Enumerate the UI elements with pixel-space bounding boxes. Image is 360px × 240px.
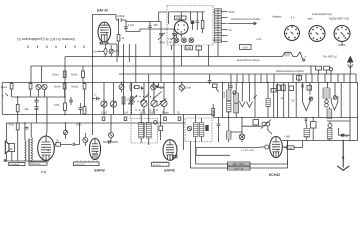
capacitor C13 [130,83,132,92]
jack J1 [36,84,41,89]
svg-text:0,5A: 0,5A [243,46,248,49]
svg-text:0,1M: 0,1M [186,47,191,50]
small box b2 [124,117,127,121]
jack J2 [42,84,47,89]
coupling circle c [328,124,332,128]
svg-text:5000Ω 1200: 5000Ω 1200 [30,164,40,166]
grid arrow Vd [331,96,338,110]
wire: T4 leads [25,123,31,161]
svg-text:10000: 10000 [149,111,156,114]
svg-text:2μF / 1μ: 2μF / 1μ [234,167,243,170]
transformer T4 core [27,139,30,162]
capacitor C3 [148,22,152,57]
svg-text:Regler: Regler [162,111,169,114]
label box 2 [196,46,202,50]
resistor R12 [130,97,133,104]
trimmer C15 [101,101,107,107]
wire: nested drops [191,142,196,169]
measure label boxes [228,162,251,166]
svg-text:0,1μF: 0,1μF [128,24,135,27]
wire: chassis bus y82.5 [2,82,358,84]
capacitor C11 [79,103,83,115]
label box V2 pins [74,162,100,166]
wire: bus y97 [12,96,65,98]
IF T7 winding a [227,90,232,101]
svg-text:470k: 470k [54,104,60,107]
svg-text:250: 250 [154,24,159,27]
small box b1 [102,117,105,121]
osc coil circles [262,122,266,126]
nested wire y147.5 [196,148,260,156]
wire: V1 frame [93,15,117,83]
trimmer C18 [151,100,157,106]
switch shaft dashed [130,104,132,119]
wire y140.5 [282,118,358,141]
IF T8 winding b [234,104,239,113]
resistor R14 [212,110,214,118]
resistor R1 [118,20,120,57]
wire: bus y117.5 [213,117,358,119]
box right of T5 [159,126,163,131]
wire: x104 x113.5 x123.5 x131.5 drops [104,83,132,115]
antenna A1 [347,56,354,63]
IF T5 winding b [146,123,151,139]
trimmer C27 [333,96,337,100]
ground arrow [342,141,344,168]
svg-text:EAF42: EAF42 [94,169,105,173]
label box DauerMagn [9,163,25,166]
trimmer inside IF box [154,121,158,125]
svg-text:4700: 4700 [159,42,165,45]
blob core [205,125,208,131]
wire: arrow lead [228,22,257,25]
coil L2 [227,131,232,139]
nested wire y164 [196,163,288,165]
svg-text:Dreh1: Dreh1 [53,74,60,77]
wire: verticals below V1 [117,44,136,66]
small box b4 [178,117,181,121]
IF T7 winding b [227,102,232,113]
svg-text:40μ: 40μ [25,108,30,111]
capacitor C20 [217,118,221,143]
svg-text:Dreh2: Dreh2 [71,74,78,77]
resistor R9 [64,83,66,104]
capacitor C31 on T4 lead [25,127,29,129]
shield box dashed 1 [167,6,213,46]
wire: top link [126,12,167,22]
blob [156,85,158,88]
box C22 [311,122,317,129]
wire: x222.5 [222,83,224,118]
coil L6 [304,129,310,138]
trimmer C25 [63,130,67,134]
IF T6 winding a [193,123,198,137]
transformer T1 winding [215,9,222,43]
wire: T5 stubs [141,115,149,146]
resistor R10 [134,86,139,89]
trimmer C4 [158,22,165,83]
capacitor C21 ticks [305,118,308,125]
IF T5 winding a [139,123,144,139]
svg-text:abgeschirmte Leitung: abgeschirmte Leitung [237,59,261,62]
svg-text:Für 4007-μ2: Für 4007-μ2 [323,55,337,58]
svg-text:1-6-5-2-4-3: 1-6-5-2-4-3 [75,164,84,166]
trimmer C16 [110,101,116,107]
wire: box drops [172,45,209,66]
small boxes below bus right [276,85,280,91]
capacitor C29 [229,74,232,90]
ticks row y46 [28,46,84,49]
svg-text:0,05μF: 0,05μF [117,15,125,18]
svg-text:Siemens SH 607 W (Qualitätssup: Siemens SH 607 W (Qualitätssuper 51 [17,37,75,41]
wire: x148.7 corner [148,74,150,119]
resistor R11 [122,97,125,104]
svg-text:2μF: 2μF [124,111,129,114]
label box 0,1M [185,46,193,50]
wire: T6 stubs [196,115,202,142]
trimmer C17 [141,100,147,106]
trimmer C26 [309,97,313,101]
tube V1 pin circles [101,42,103,44]
fuse label box [240,45,252,50]
tube V5 EL41 [38,136,55,160]
trimmer C19 [161,100,167,106]
switch SW1 bump [282,52,297,56]
svg-text:DrehC: DrehC [72,86,79,89]
small box b3 [164,117,167,121]
boxed label 1,9uF [175,16,187,20]
svg-text:4,2V: 4,2V [168,39,173,41]
bottom wire y161 [5,160,49,162]
svg-text:4700: 4700 [9,124,15,127]
diode D1 [141,87,144,90]
nested wire y168 [191,141,288,169]
socket S3 [334,26,350,42]
right boxes y66 [311,65,316,67]
coupling circles [325,100,329,104]
IF shield box dashed [131,119,158,144]
svg-text:Wellenbereichsumschalter: Wellenbereichsumschalter [231,18,260,21]
wire: x174 x183.5 [174,83,184,151]
tube V4 ECH42 [270,136,283,157]
capacitor C30 [69,97,73,105]
wire: y126.2 link [242,125,262,127]
svg-text:A150: A150 [229,11,235,14]
grid arrow Vb [247,102,253,108]
junction x left [4,159,6,161]
socket S0 [175,21,189,35]
svg-text:EAF 42: EAF 42 [97,9,108,13]
band switch contact dots [130,96,161,111]
wire: x255 with arrow [253,83,256,118]
capacitor C8 [196,12,199,30]
lamp P3b [189,38,194,43]
jack J9 [109,133,114,138]
capacitor C7 electrolytic [190,12,192,21]
comb ticks y74-82.5 [237,74,356,83]
lamp P3 [239,134,245,140]
trimmer C6 [109,49,113,53]
inner wire top [169,12,205,24]
wire V4 to right [282,141,287,148]
wire: left edge vertical [1,83,3,115]
transformer T1 taps [213,12,228,42]
tube V1 envelope [98,22,111,42]
comp right of V3 pins [174,155,178,158]
svg-text:Wellenbereichsumschalter: Wellenbereichsumschalter [276,70,304,73]
svg-text:Dr: Dr [56,140,59,143]
wire: link y29 [140,29,174,32]
capacitor C2 [124,20,140,32]
capacitor C14b [159,83,165,89]
lamp P1 [174,38,179,43]
grid cap circle V4 [265,145,269,149]
wire: frame x92.5 lower [92,83,94,136]
svg-text:e = 13 + 2V: e = 13 + 2V [241,149,254,152]
wire: speaker leads [7,152,12,162]
coil L4 [327,109,332,119]
svg-text:+14B: +14B [284,136,290,139]
label box V3 pins [152,163,170,167]
svg-text:AQ2Ey-AEEY-AQ2: AQ2Ey-AEEY-AQ2 [329,17,350,20]
wire: x79.5 riser [79,123,81,144]
grid arrow Va [240,102,246,107]
svg-text:DauerMagn: DauerMagn [10,163,20,166]
wire: bus y66 [31,66,311,74]
jack J3 [187,126,191,130]
speaker LS1 [5,141,9,154]
coil L3 [323,88,330,98]
wire: y56.6 right [304,56,307,58]
wire: bus y114.5 [2,114,212,116]
small box on comb [297,76,302,81]
svg-text:Erde: Erde [186,86,192,89]
switch SW2 contact [297,52,303,61]
small circle x234.5 [233,91,236,94]
resistor R16 [56,143,61,147]
trimmer C12 [119,85,124,90]
coil L1 [266,99,270,107]
capacitor C24 [63,143,80,146]
label box 5000 [29,162,47,165]
shield box dashed 2 [185,118,212,142]
capacitor C9 [34,97,38,107]
IF T6 winding b [199,123,204,137]
svg-text:EAF42: EAF42 [164,168,175,172]
trimmer C5 [171,29,178,83]
resistor R2 under V1 [105,44,107,48]
capacitor C28 [208,74,211,84]
capacitor C1 [116,18,126,22]
wire: bus y74 [119,73,356,75]
output transformer T4 primary [25,140,26,160]
wire y121 [327,120,350,122]
resistor R7b [83,107,86,115]
svg-text:1Ω+2: 1Ω+2 [76,124,83,127]
wire: bus y123 [6,122,185,124]
grid arrow Vc [303,83,311,111]
capacitor C32 [93,97,101,100]
resistor R3 [201,21,204,29]
socket S1 [285,26,300,41]
svg-text:Adapter: Adapter [272,15,282,19]
wire: x123.5 x135.8 down [124,66,136,83]
tube V2 EAF42 [89,138,100,159]
socket S2 [309,26,325,42]
measure box V4 [287,146,294,150]
wire: speaker feed [6,123,8,141]
lamp P2 [182,38,187,43]
wire: y142 link [103,140,118,143]
box 24k [271,89,276,93]
resistor R8a [17,97,19,105]
junction dots [11,82,351,142]
coil L5 [327,129,332,140]
wire: x65 x174 verticals [31,57,174,83]
resistor R7c upper [82,71,85,78]
svg-text:nach: nach [307,17,313,20]
svg-text:A-St: A-St [257,38,262,41]
tube V1 electrodes [100,22,109,42]
svg-text:7-6-5-4-2: 7-6-5-4-2 [153,164,161,166]
wire verticals right block [278,83,358,122]
IF T8 winding a [234,93,239,103]
svg-text:(*1): (*1) [41,170,46,174]
svg-text:2μF / 450V: 2μF / 450V [233,163,245,166]
resistor R4 [10,84,13,90]
wire x36.5 down [36,115,38,124]
blob cap [341,134,345,137]
jack J8 [179,85,184,90]
small box x255 [253,120,259,126]
socket center marks [291,32,292,33]
bump hatches [285,52,289,56]
resistor R6 [63,84,66,90]
IF T5 core [144,124,146,138]
svg-text:ECH42: ECH42 [269,173,280,177]
wire: S0 to lamps [177,34,182,38]
jack J5 [83,138,88,143]
box sw [213,84,218,88]
svg-text:50000: 50000 [224,91,226,98]
svg-text:μ μ: μ μ [291,16,295,19]
resistor R7 [83,84,86,90]
resistor R6b upper [63,71,66,78]
resistor R5 [29,84,32,90]
wire: x47 column [46,97,47,136]
svg-text:Dm: Dm [94,50,98,53]
resistor R8b [16,123,19,130]
svg-text:0,4V: 0,4V [288,147,293,150]
svg-text:0,2A: 0,2A [168,41,173,44]
svg-text:DrehC: DrehC [54,86,61,89]
jack J7 [151,85,156,90]
band switch wipers [128,92,166,107]
wire: x273.7 [273,83,275,118]
svg-text:außenabgleichung: außenabgleichung [312,13,332,16]
tube V3 EAF42 [163,140,177,161]
wire: coil bottom drop [217,43,219,57]
wire: HT bus y56.6 [65,56,282,58]
output transformer T4 secondary [31,137,32,160]
capacitor C10 [34,107,38,115]
